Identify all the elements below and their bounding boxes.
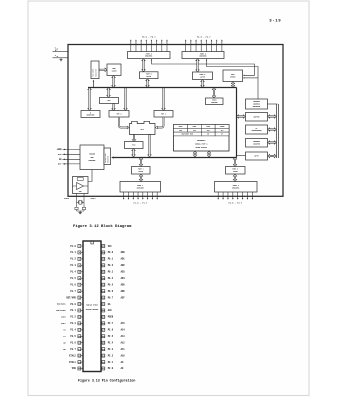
bus ring right wire	[236, 88, 238, 158]
svg-text:DPTR: DPTR	[255, 156, 259, 158]
svg-text:TL0: TL0	[193, 130, 196, 132]
svg-text:P2.6: P2.6	[108, 329, 114, 332]
XTAL1 pin label	[91, 197, 96, 200]
svg-text:ALE: ALE	[108, 309, 113, 312]
pin 40 VCC	[101, 245, 112, 248]
svg-text:P0.6: P0.6	[108, 290, 114, 293]
svg-text:DRIVERS: DRIVERS	[199, 56, 206, 58]
PSW register	[125, 142, 144, 149]
Vcc supply pin	[53, 47, 69, 52]
arrow: port2 latch to internal bus	[201, 80, 204, 88]
pin 26 P2.5	[101, 335, 125, 338]
ground symbol at crystal	[79, 211, 81, 212]
capacitor C1	[75, 207, 78, 209]
svg-text:SBUF(XMIT RCV): SBUF(XMIT RCV)	[182, 134, 194, 136]
arrow: port0 drivers to port0 latch	[142, 59, 145, 72]
pin 17 P3.7	[63, 348, 83, 351]
svg-text:A11: A11	[121, 348, 126, 351]
svg-text:P2.2: P2.2	[108, 354, 114, 357]
svg-text:CC: CC	[57, 48, 59, 50]
svg-text:TMOD: TMOD	[193, 126, 197, 128]
svg-text:REGISTER: REGISTER	[87, 115, 95, 117]
port 3 drivers	[215, 182, 258, 193]
TMP2 register	[109, 111, 129, 118]
svg-text:TMP 2: TMP 2	[116, 113, 121, 115]
svg-text:P3.5: P3.5	[70, 335, 76, 338]
arrow: pc incrementer to right bus	[268, 128, 277, 131]
svg-text:P2.5: P2.5	[108, 335, 114, 338]
arrow: ACC to TMP2	[112, 104, 115, 111]
svg-text:P1.0: P1.0	[70, 245, 76, 248]
svg-text:PSEN: PSEN	[57, 148, 63, 151]
control input EA/VPP	[59, 158, 80, 161]
svg-text:INTERRUPT: INTERRUPT	[197, 140, 206, 142]
pc incrementer	[246, 125, 268, 134]
pin 15 P3.5	[63, 335, 83, 338]
svg-text:P3.0: P3.0	[70, 303, 76, 306]
arrow: bus 2 to port 3 latch	[233, 157, 236, 166]
program counter	[246, 139, 268, 148]
arrow: ROM to internal bus	[231, 82, 234, 88]
pin 33 P0.6	[101, 290, 125, 293]
svg-text:P0.0: P0.0	[108, 251, 114, 254]
internal bus 2 wire with arrow into instruction register	[111, 156, 236, 158]
svg-text:XTAL2: XTAL2	[64, 197, 69, 200]
wire: port0 address feedback to ROM	[151, 59, 255, 76]
svg-text:P1.0 - P1.7: P1.0 - P1.7	[134, 201, 148, 204]
svg-text:P3.7: P3.7	[70, 348, 76, 351]
svg-text:TL1: TL1	[221, 130, 224, 132]
pin 36 P0.3	[101, 270, 125, 273]
arrow: internal bus to B register	[88, 88, 91, 111]
svg-text:RXD/DATA: RXD/DATA	[57, 303, 67, 306]
svg-text:TIMING: TIMING	[89, 154, 95, 156]
svg-text:SCON: SCON	[179, 126, 183, 128]
pin 13 P3.3	[61, 322, 83, 325]
timing and control unit	[80, 145, 104, 170]
port 2 pins P2.0-P2.7	[185, 35, 223, 51]
svg-text:AND: AND	[90, 156, 93, 159]
svg-text:AD1: AD1	[121, 258, 126, 261]
port 0 drivers U-P0D	[128, 52, 171, 59]
pin 27 P2.6	[101, 328, 125, 331]
accumulator ACC	[100, 98, 119, 104]
svg-text:P3.1: P3.1	[70, 309, 76, 312]
svg-text:Figure 3.13 Pin Configuration: Figure 3.13 Pin Configuration	[78, 379, 135, 383]
svg-text:P2.7: P2.7	[108, 322, 114, 325]
internal bus 1 wire	[88, 80, 237, 88]
ram address register	[91, 61, 99, 79]
rom eprom	[223, 70, 243, 82]
arrow: ALU to bus 2	[148, 135, 151, 157]
svg-text:T0: T0	[63, 330, 65, 332]
svg-text:XTAL1: XTAL1	[91, 197, 96, 200]
svg-text:PORT 3: PORT 3	[232, 169, 238, 171]
figure 3.13 caption	[78, 379, 135, 383]
svg-text:IP: IP	[221, 134, 223, 136]
svg-text:DRIVERS: DRIVERS	[145, 56, 152, 58]
svg-text:AD3: AD3	[121, 271, 126, 274]
arrow: port 3 latch to port 3 drivers	[233, 174, 236, 181]
svg-text:P3.3: P3.3	[70, 322, 76, 325]
svg-text:ACC: ACC	[107, 99, 110, 102]
svg-text:ALU: ALU	[141, 128, 144, 131]
pin 35 P0.4	[101, 277, 125, 280]
svg-text:P0.1: P0.1	[108, 258, 114, 261]
buffer	[246, 113, 268, 122]
svg-text:AD7: AD7	[121, 296, 126, 299]
svg-text:INSTRUCTION: INSTRUCTION	[105, 153, 107, 163]
pin 18 XTAL2	[69, 354, 83, 357]
pin 22 P2.1	[101, 361, 124, 364]
wire: program address register to right bus	[268, 103, 278, 105]
svg-text:A15: A15	[121, 322, 126, 325]
svg-text:T2CON: T2CON	[220, 126, 225, 128]
ALU	[130, 121, 156, 134]
arrow: bus to buffer left	[236, 115, 245, 118]
port 0 latch	[140, 72, 159, 79]
arrow: internal bus to stack pointer	[212, 88, 215, 98]
svg-text:P3.2: P3.2	[70, 316, 76, 319]
pin 9 RST/VPD	[66, 296, 83, 299]
XTAL2 pin label	[64, 197, 69, 200]
port 1 latch	[132, 167, 151, 175]
svg-text:INT1: INT1	[61, 323, 65, 325]
svg-text:AD6: AD6	[121, 290, 126, 293]
pin 39 P0.0	[101, 251, 125, 254]
pin 1 notch	[91, 241, 94, 244]
svg-text:TIMER BLOCKS: TIMER BLOCKS	[195, 147, 207, 149]
svg-text:VCC: VCC	[108, 245, 113, 248]
port 2 latch	[193, 72, 213, 80]
arrow: PSW to bus 2	[132, 149, 135, 157]
arrow: internal bus to TMP1	[162, 88, 165, 111]
svg-text:REGISTER: REGISTER	[95, 69, 97, 77]
svg-text:P2.0 - P2.7: P2.0 - P2.7	[197, 35, 211, 38]
svg-text:PORT 1: PORT 1	[138, 169, 144, 171]
svg-text:B: B	[90, 112, 91, 114]
svg-text:A12: A12	[121, 341, 126, 344]
svg-text:PSEN: PSEN	[108, 316, 114, 319]
svg-text:A13: A13	[121, 335, 126, 338]
svg-text:P1.2: P1.2	[70, 258, 76, 261]
TMP1 register	[154, 111, 173, 118]
svg-text:A14: A14	[121, 329, 126, 332]
Vss supply pin	[53, 54, 69, 61]
svg-text:DRIVERS: DRIVERS	[137, 188, 144, 190]
svg-text:P0.4: P0.4	[108, 277, 114, 280]
right address bus wires	[277, 104, 279, 158]
DPTR register	[246, 152, 268, 160]
arrow: port0 latch to internal bus	[146, 79, 149, 88]
arrow: program counter to right bus	[268, 141, 277, 144]
arrow: ALU to PSW	[132, 135, 135, 142]
svg-text:P1.6: P1.6	[70, 283, 76, 286]
pin 4 P1.3	[70, 264, 83, 267]
arrow: buffer to right bus	[268, 115, 277, 118]
pin 1 P1.0	[70, 245, 83, 248]
svg-text:T1: T1	[63, 336, 65, 338]
arrow: bus 2 to port 1 latch	[139, 157, 142, 166]
pin 14 P3.4	[63, 328, 83, 331]
svg-text:TXD/CLOCK: TXD/CLOCK	[56, 310, 67, 312]
pin 10 P3.0	[57, 303, 83, 306]
pin 20 VSS	[72, 367, 83, 370]
pin 34 P0.5	[101, 283, 125, 286]
arrow: port2 drivers to port2 latch	[196, 59, 199, 72]
svg-text:TH1: TH1	[207, 130, 210, 132]
svg-text:AD0: AD0	[121, 251, 126, 254]
svg-text:XTAL2: XTAL2	[69, 354, 76, 357]
pin 19 XTAL1	[69, 361, 83, 364]
svg-text:TH0: TH0	[179, 130, 182, 132]
page number 3-19	[269, 19, 281, 23]
osc amplifier triangle	[77, 183, 84, 190]
pin 21 P2.0	[101, 367, 124, 370]
pin 2 P1.1	[70, 251, 83, 254]
B register	[81, 111, 100, 118]
svg-text:PC: PC	[256, 128, 258, 130]
wire: port2 address feedback to ROM and program address register	[206, 59, 258, 99]
svg-text:OSC: OSC	[79, 191, 82, 193]
wire: osc to timing and control	[88, 170, 92, 182]
pin 29 PSEN	[101, 315, 114, 318]
DIP package body	[83, 241, 101, 372]
port 0 pins P0.0-P0.7	[130, 35, 168, 51]
svg-text:BUFFER: BUFFER	[254, 116, 260, 118]
pin 5 P1.4	[70, 270, 83, 273]
svg-text:P3.0 - P3.7: P3.0 - P3.7	[228, 201, 242, 204]
wire: TMP2 into ALU	[119, 117, 129, 129]
svg-text:CONTROL: CONTROL	[88, 160, 95, 162]
port 1 pins P1.0-P1.7	[123, 192, 158, 204]
svg-text:P2.4: P2.4	[108, 341, 114, 344]
svg-text:P3.4: P3.4	[70, 329, 76, 332]
svg-text:AD5: AD5	[121, 283, 126, 286]
instruction register	[104, 148, 111, 165]
pin 8 P1.7	[70, 290, 83, 293]
svg-text:P0.3: P0.3	[108, 271, 114, 274]
capacitor C2	[82, 207, 85, 209]
svg-text:AD2: AD2	[121, 264, 126, 267]
svg-text:COUNTER: COUNTER	[253, 143, 260, 145]
arrow: ram to internal bus	[112, 76, 115, 88]
svg-text:IE: IE	[207, 134, 209, 136]
control input ALE/PROG	[58, 153, 80, 156]
svg-text:DRIVERS: DRIVERS	[232, 188, 239, 190]
pin 23 P2.2	[101, 354, 125, 357]
pin 28 P2.7	[101, 322, 125, 325]
pin 3 P1.2	[70, 257, 83, 260]
svg-text:P1.7: P1.7	[70, 290, 76, 293]
arrow: ram addr register to ram	[99, 68, 107, 71]
ram	[107, 64, 121, 76]
crystal symbol	[77, 201, 79, 203]
svg-text:INCREMENTER: INCREMENTER	[252, 130, 262, 132]
svg-text:P1.1: P1.1	[70, 251, 76, 254]
svg-text:Figure 3.12 Block Diagram: Figure 3.12 Block Diagram	[73, 224, 132, 229]
pin 11 P3.1	[56, 309, 83, 312]
svg-text:P0.7: P0.7	[108, 296, 114, 299]
arrow: port 1 latch to port 1 drivers	[139, 174, 142, 181]
arrow: interrupt block to bus 2 right	[207, 151, 210, 157]
interrupt serial port and timer blocks table	[174, 125, 230, 152]
svg-text:P1.3: P1.3	[70, 264, 76, 267]
svg-text:128X8: 128X8	[111, 71, 116, 73]
svg-text:P0.0 - P0.7: P0.0 - P0.7	[142, 35, 156, 38]
port 1 drivers	[120, 182, 161, 193]
svg-text:A10: A10	[121, 354, 126, 357]
ground symbol at Vss	[60, 58, 62, 59]
svg-text:AD4: AD4	[121, 277, 126, 280]
svg-text:TMP 1: TMP 1	[161, 113, 166, 115]
port 3 latch	[226, 167, 246, 175]
svg-text:P3.6: P3.6	[70, 341, 76, 344]
svg-text:INT0: INT0	[61, 317, 65, 319]
svg-text:P2.0: P2.0	[108, 367, 114, 370]
crystal circuit wires	[75, 194, 86, 214]
svg-text:XTAL1: XTAL1	[69, 361, 76, 364]
pin 31 EA	[101, 303, 111, 306]
svg-text:PORT 0: PORT 0	[146, 74, 152, 76]
port 3 pins P3.0-P3.7	[218, 192, 254, 204]
svg-text:VSS: VSS	[72, 367, 77, 370]
control input RST	[58, 163, 80, 166]
arrow: internal bus to TMP2	[124, 88, 127, 111]
port 2 drivers U-P2D	[182, 52, 224, 59]
svg-text:P2.1: P2.1	[108, 361, 114, 364]
svg-text:REGISTER: REGISTER	[108, 156, 110, 163]
arrow: dptr to right bus	[268, 154, 277, 157]
pin 24 P2.3	[101, 348, 125, 351]
pin 12 P3.2	[61, 315, 83, 318]
control input PSEN	[57, 148, 80, 151]
svg-text:3-19: 3-19	[269, 19, 281, 23]
program address register	[246, 99, 268, 109]
pin 30 ALE	[101, 309, 112, 312]
oscillator OSC	[73, 177, 89, 194]
arrow: internal bus to ACC	[107, 88, 110, 98]
pin 6 P1.5	[70, 277, 83, 280]
arrow: interrupt block to bus 2 left	[193, 151, 196, 157]
svg-text:REGISTER: REGISTER	[253, 106, 260, 108]
wire: bus to DPTR	[236, 154, 246, 156]
svg-text:POINTER: POINTER	[211, 102, 217, 104]
figure 3.12 caption	[73, 224, 132, 229]
svg-text:RST/VPD: RST/VPD	[66, 296, 76, 299]
stack pointer	[206, 98, 224, 105]
block diagram outer frame	[68, 45, 283, 197]
svg-text:P2.3: P2.3	[108, 348, 114, 351]
svg-text:EPROM: EPROM	[230, 77, 235, 79]
osc feedback resistor	[77, 178, 83, 181]
pin 38 P0.1	[101, 257, 125, 260]
pin 32 P0.7	[101, 296, 125, 299]
pin 16 P3.6	[63, 341, 83, 344]
wire: TMP1 into ALU	[155, 117, 163, 129]
svg-text:TCON: TCON	[206, 126, 210, 128]
svg-text:P1.5: P1.5	[70, 277, 76, 280]
svg-text:P1.4: P1.4	[70, 271, 76, 274]
svg-text:PORT 2: PORT 2	[200, 74, 206, 76]
pin 37 P0.2	[101, 264, 125, 267]
svg-text:P0.5: P0.5	[108, 283, 114, 286]
pin 25 P2.4	[101, 341, 125, 344]
pin 7 P1.6	[70, 283, 83, 286]
svg-text:P0.2: P0.2	[108, 264, 114, 267]
